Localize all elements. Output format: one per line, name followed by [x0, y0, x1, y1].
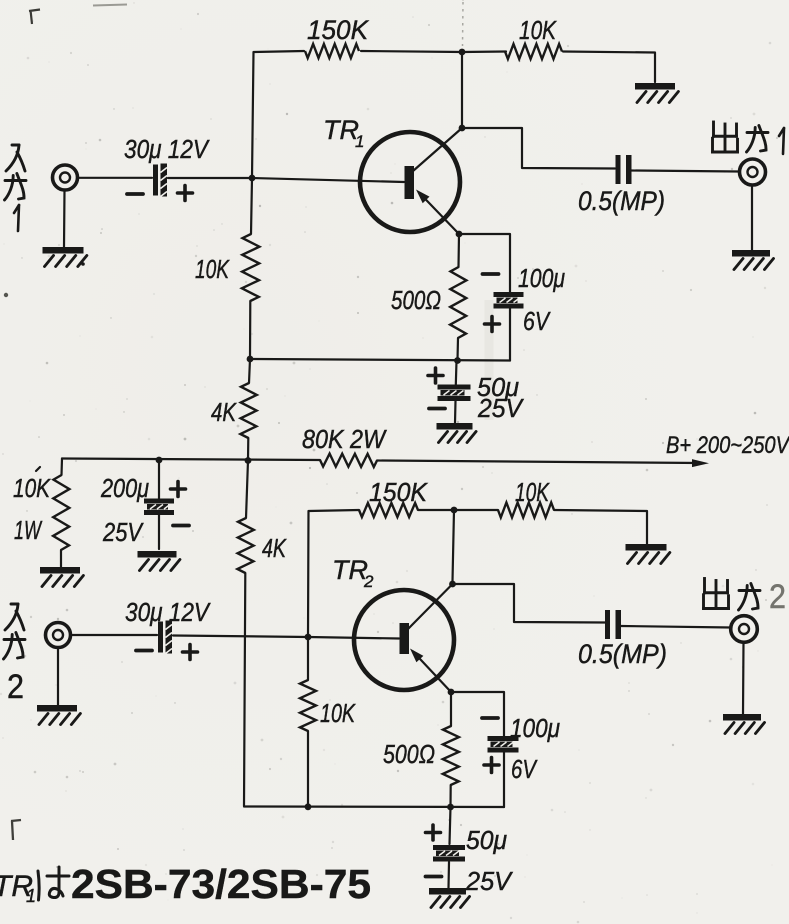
svg-text:30μ 12V: 30μ 12V — [124, 134, 210, 164]
label 50u (C9) — [466, 825, 507, 855]
wire J1 to ground — [63, 190, 66, 247]
label 4K (R5) — [211, 397, 237, 427]
wire C9 to ground — [447, 862, 450, 888]
svg-text:B+ 200~250V: B+ 200~250V — [666, 432, 789, 459]
label 100u (C8) — [510, 713, 560, 743]
node B2 (TR2 collector top junction) — [451, 507, 458, 514]
label 1W (R7) — [14, 515, 43, 545]
capacitor C3 100u 6V — [494, 292, 524, 309]
svg-text:6V: 6V — [523, 306, 551, 336]
svg-text:1W: 1W — [14, 515, 43, 545]
wire emitter bias rail stage2 — [244, 805, 504, 808]
svg-text:TR: TR — [323, 115, 359, 145]
svg-text:10K: 10K — [320, 698, 356, 728]
ground below R7 — [40, 570, 83, 586]
wire node A2 up to R9 — [308, 510, 359, 637]
wire R1 to node B1 — [361, 51, 462, 52]
wire C7 to output jack J4 — [621, 626, 731, 628]
svg-text:TR: TR — [332, 555, 368, 585]
wire node B2 to R10 — [454, 509, 498, 511]
capacitor C6 30u 12V — [158, 621, 172, 654]
resistor R1 150K — [305, 44, 359, 58]
label output-1 (shutsuryoku 1) — [713, 122, 785, 154]
polarity plus C6 — [183, 645, 198, 660]
node D2 (rail2 / R11 junction) — [447, 804, 454, 811]
label 150K (R1) — [307, 15, 369, 45]
node B1 (TR1 collector top junction) — [459, 49, 466, 56]
svg-text:500Ω: 500Ω — [391, 285, 441, 315]
label 6V (C8) — [511, 754, 538, 784]
label 25V (C4) — [477, 393, 524, 423]
label input-2 (nyuuryoku 2) — [4, 604, 26, 706]
label 30u 12V (C1) — [124, 134, 210, 164]
resistor R5 4K upper — [240, 359, 256, 460]
label 500ohm (R11) — [383, 739, 435, 769]
label B+ 200-250V — [666, 432, 789, 459]
transistor TR2 — [354, 584, 454, 692]
label TR2 — [332, 555, 374, 591]
resistor R8 4K lower — [237, 461, 253, 807]
label 0.5(MP) (C2) — [578, 186, 665, 216]
resistor R10 10K — [498, 503, 554, 518]
polarity plus C8 — [484, 758, 499, 773]
resistor R7 10K 1W — [53, 475, 69, 567]
label output-2 (shutsuryoku 2) — [704, 578, 787, 616]
svg-text:150K: 150K — [369, 477, 429, 507]
polarity minus C5 — [173, 524, 189, 528]
polarity plus C3 — [485, 317, 500, 332]
svg-text:25V: 25V — [102, 517, 144, 547]
output jack J3 — [740, 159, 766, 185]
node E2 (TR2 emitter junction) — [448, 689, 455, 696]
polarity minus C8 — [482, 716, 498, 720]
wire R9 to node B2 — [418, 509, 454, 511]
label 30u 12V (C6) — [125, 597, 211, 627]
polarity minus C4 — [429, 407, 445, 411]
label 10K (R10) — [515, 477, 550, 507]
node C1j (collector branch junction) — [459, 125, 466, 132]
wire D2 to C9 — [450, 807, 451, 844]
node C2j (collector branch junction) — [449, 581, 456, 588]
label TR1 — [323, 115, 364, 151]
svg-text:1: 1 — [26, 886, 36, 906]
resistor R12 10K base bias — [300, 637, 316, 807]
label 200u (C5) — [100, 473, 149, 503]
svg-text:25V: 25V — [465, 866, 514, 896]
wire C5 to ground — [158, 515, 160, 549]
caption TR1 ha 2SB-73/2SB-75 — [0, 861, 371, 907]
transistor TR1 — [360, 128, 462, 234]
svg-text:10K: 10K — [13, 473, 51, 503]
capacitor C7 0.5MP output — [605, 610, 621, 639]
svg-text:2: 2 — [7, 668, 24, 706]
label 100u (C3) — [518, 263, 565, 293]
svg-text:6V: 6V — [511, 754, 538, 784]
resistor R4 10K base bias — [242, 178, 260, 359]
ground below output jack J4 — [723, 717, 764, 733]
wire C8 down to rail2 — [503, 753, 505, 808]
svg-text:0.5(MP): 0.5(MP) — [578, 186, 665, 216]
polarity minus C3 — [483, 272, 499, 276]
ground below C4 — [437, 426, 477, 442]
node A1 (TR1 base node) — [249, 175, 256, 182]
ground below C9 — [429, 891, 470, 907]
capacitor C5 200u 25V — [144, 499, 174, 516]
resistor R6 80K 2W — [320, 454, 377, 467]
wire R2 to ground — [563, 52, 655, 83]
polarity plus C5 — [171, 482, 186, 497]
wire collector node B2 down — [453, 510, 455, 581]
svg-text:0.5(MP): 0.5(MP) — [578, 639, 667, 669]
ground below input jack J2 — [37, 708, 80, 724]
node A2 (TR2 base node) — [305, 634, 312, 641]
label 10K (R2) — [519, 15, 557, 45]
label 25V (C9) — [465, 866, 514, 896]
wire C3 down to rail — [509, 309, 511, 361]
svg-text:150K: 150K — [307, 15, 369, 45]
wire R10 to ground — [554, 510, 647, 544]
label 50u (C4) — [477, 372, 519, 402]
input jack J2 — [46, 623, 71, 648]
svg-text:100μ: 100μ — [518, 263, 565, 293]
ground at R10 — [626, 547, 670, 563]
polarity minus C1 — [127, 192, 143, 196]
node E1 (TR1 emitter junction) — [456, 231, 463, 238]
wire J1 to capacitor C1 — [78, 177, 153, 179]
wire node B1 to R2 — [462, 50, 506, 53]
node H1 (200u tap) — [156, 457, 163, 464]
capacitor C2 0.5MP output — [616, 155, 632, 184]
node A2b (rail2 / R12 junction) — [305, 803, 312, 810]
svg-text:100μ: 100μ — [510, 713, 560, 743]
wire J3 to ground — [751, 185, 753, 250]
capacitor C9 50u 25V — [433, 845, 465, 862]
output jack J4 — [731, 616, 758, 643]
polarity plus C9 — [426, 825, 441, 840]
wire base node A2 to TR2 — [308, 637, 399, 639]
ground below C5 — [138, 554, 180, 570]
node D1 (rail / R3 junction) — [454, 357, 461, 364]
input jack J1 — [53, 165, 78, 190]
svg-text:10K: 10K — [519, 15, 557, 45]
label 0.5(MP) (C7) — [578, 639, 667, 669]
wire collector branch to C2 — [462, 128, 615, 169]
wire collector branch to C7 — [453, 584, 606, 623]
label 10K (R7) — [13, 467, 51, 503]
label 10K (R12) — [320, 698, 356, 728]
resistor R11 500ohm — [443, 692, 459, 807]
label 10K (R4) — [195, 254, 230, 284]
svg-text:10K: 10K — [195, 254, 230, 284]
label 4K (R8) — [262, 533, 287, 563]
polarity plus C1 — [178, 186, 193, 201]
wire B+ left end down — [60, 459, 63, 476]
label 150K (R9) — [369, 477, 429, 507]
label 25V (C5) — [102, 517, 144, 547]
wire J2 to capacitor C6 — [71, 634, 158, 636]
wire J4 to ground — [742, 642, 745, 714]
wire emitter to C3 — [459, 234, 510, 292]
svg-text:50μ: 50μ — [466, 825, 507, 855]
wire node A1 up to R1 — [252, 51, 304, 178]
svg-text:1: 1 — [355, 132, 364, 151]
svg-text:200μ: 200μ — [100, 473, 149, 503]
capacitor C1 30u 12V — [153, 164, 167, 197]
wire emitter to C8 — [451, 692, 504, 736]
capacitor C8 100u 6V — [488, 736, 519, 753]
polarity plus C4 — [428, 368, 443, 383]
ground at R2 — [635, 86, 678, 102]
wire D1 to C4 — [455, 361, 458, 385]
node G1 (B+ / divider tap) — [245, 457, 252, 464]
svg-text:10K: 10K — [515, 477, 550, 507]
wire collector node B1 down — [461, 52, 463, 125]
wire J2 to ground — [57, 648, 59, 706]
label 6V (C3) — [523, 306, 551, 336]
svg-text:25V: 25V — [477, 393, 524, 423]
ground below output jack J3 — [732, 253, 773, 269]
capacitor C4 50u 25V — [438, 385, 471, 402]
label 500ohm (R3) — [391, 285, 441, 315]
polarity minus C9 — [426, 875, 442, 879]
node F1 (rail left junction) — [247, 356, 254, 363]
label input-1 (nyuuryoku 1) — [5, 145, 27, 231]
resistor R2 10K — [505, 44, 562, 59]
B+ supply line — [62, 459, 700, 464]
svg-text:2: 2 — [363, 572, 374, 591]
wire base node A1 to TR1 — [252, 178, 404, 182]
wire C2 to output jack J3 — [631, 171, 739, 172]
B+ arrowhead — [692, 459, 709, 467]
svg-text:2: 2 — [769, 578, 786, 616]
svg-text:500Ω: 500Ω — [383, 739, 435, 769]
polarity minus C6 — [136, 649, 152, 653]
ground below input jack J1 — [43, 250, 87, 266]
resistor R3 500ohm — [450, 234, 466, 360]
svg-text:80K 2W: 80K 2W — [302, 424, 387, 454]
wire C6 to node A2 — [173, 636, 308, 638]
svg-text:4K: 4K — [211, 397, 237, 427]
wire C4 to ground — [454, 401, 457, 423]
wire H1 down to C5 — [158, 460, 160, 499]
wire C1 to node A1 — [168, 177, 252, 179]
label 80K 2W (R6) — [302, 424, 387, 454]
svg-text:2SB-73/2SB-75: 2SB-73/2SB-75 — [71, 861, 371, 907]
svg-text:4K: 4K — [262, 533, 287, 563]
resistor R9 150K — [359, 503, 418, 517]
wire emitter bias rail stage1 — [250, 359, 510, 361]
